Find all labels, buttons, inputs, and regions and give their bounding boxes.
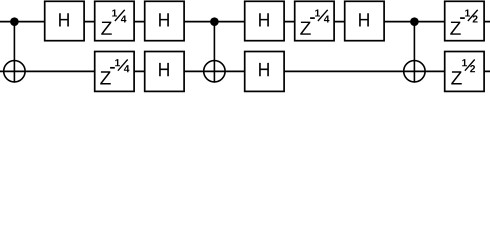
gate H q0 col7	[345, 1, 384, 40]
CNOT 1 target	[4, 61, 25, 82]
gate H q0 col3	[145, 1, 184, 40]
gate Z^-1/4 q0 col6	[295, 1, 334, 40]
gate H q1 col5	[245, 52, 284, 92]
CNOT 3 vertical wire	[413, 22, 415, 83]
wire q0	[0, 21, 490, 23]
CNOT 3 target	[404, 61, 425, 82]
CNOT 2 vertical wire	[213, 22, 215, 83]
gate H q0 col5	[245, 1, 284, 40]
gate Z^1/2 q1 col9	[445, 52, 484, 92]
CNOT 2 target	[204, 61, 225, 82]
gate H q0 col1	[45, 1, 84, 40]
CNOT 2 control dot	[210, 17, 219, 26]
gate H q1 col3	[145, 52, 184, 92]
gate Z^1/4 q0 col2	[95, 1, 134, 40]
CNOT 1 vertical wire	[13, 22, 15, 83]
CNOT 1 control dot	[10, 17, 19, 26]
gate Z^-1/2 q0 col9	[445, 1, 484, 40]
gate Z^-1/4 q1 col2	[95, 52, 134, 92]
CNOT 3 control dot	[410, 17, 419, 26]
wire q1	[0, 70, 490, 72]
